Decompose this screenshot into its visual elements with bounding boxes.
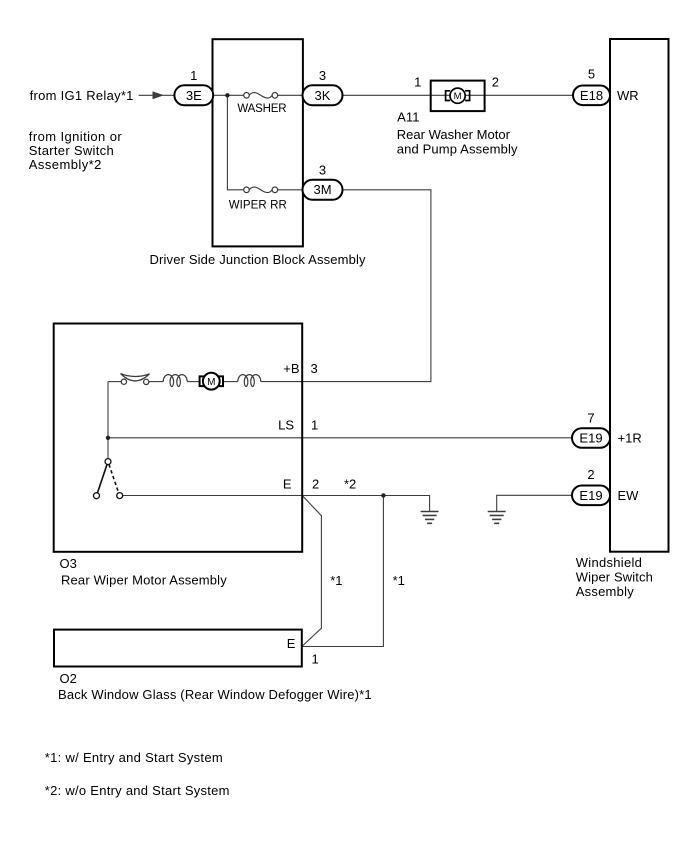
svg-text:1: 1 <box>311 418 318 433</box>
svg-text:+B: +B <box>283 361 299 376</box>
svg-text:Driver Side Junction Block Ass: Driver Side Junction Block Assembly <box>150 252 367 267</box>
svg-text:E: E <box>287 636 296 651</box>
svg-text:*2: *2 <box>344 477 356 492</box>
svg-text:M: M <box>454 91 462 102</box>
svg-text:1: 1 <box>414 75 421 90</box>
svg-text:2: 2 <box>492 75 499 90</box>
svg-text:EW: EW <box>618 488 640 503</box>
svg-text:*1: w/ Entry and Start System: *1: w/ Entry and Start System <box>45 750 223 765</box>
svg-text:Windshield: Windshield <box>576 555 642 570</box>
svg-text:E: E <box>283 477 292 492</box>
svg-text:E19: E19 <box>579 431 602 446</box>
svg-text:7: 7 <box>587 411 594 426</box>
svg-text:3: 3 <box>311 361 318 376</box>
svg-text:Rear Wiper Motor Assembly: Rear Wiper Motor Assembly <box>61 573 227 588</box>
svg-text:3: 3 <box>319 162 326 177</box>
svg-text:1: 1 <box>312 652 319 667</box>
svg-text:WASHER: WASHER <box>237 103 286 115</box>
svg-text:M: M <box>207 377 215 388</box>
svg-text:3: 3 <box>319 68 326 83</box>
svg-text:WIPER RR: WIPER RR <box>229 199 287 211</box>
svg-text:3K: 3K <box>315 88 331 103</box>
svg-text:*2: w/o Entry and Start System: *2: w/o Entry and Start System <box>45 783 230 798</box>
svg-text:Wiper Switch: Wiper Switch <box>576 570 653 585</box>
svg-text:Starter Switch: Starter Switch <box>29 143 114 158</box>
svg-text:Rear Washer Motor: Rear Washer Motor <box>397 127 511 142</box>
svg-text:O2: O2 <box>60 671 77 686</box>
svg-text:LS: LS <box>278 418 294 433</box>
svg-text:E18: E18 <box>580 88 603 103</box>
svg-text:A11: A11 <box>397 109 419 124</box>
svg-text:from Ignition or: from Ignition or <box>29 129 123 144</box>
svg-text:5: 5 <box>588 67 595 82</box>
svg-text:2: 2 <box>587 467 594 482</box>
svg-text:E19: E19 <box>579 488 602 503</box>
svg-text:Assembly*2: Assembly*2 <box>29 157 102 172</box>
svg-text:*1: *1 <box>330 573 342 588</box>
svg-text:2: 2 <box>312 477 319 492</box>
svg-text:from IG1 Relay*1: from IG1 Relay*1 <box>30 88 134 103</box>
svg-text:*1: *1 <box>393 573 405 588</box>
svg-text:1: 1 <box>190 68 197 83</box>
svg-text:O3: O3 <box>60 556 77 571</box>
svg-text:3E: 3E <box>186 88 202 103</box>
svg-text:+1R: +1R <box>618 431 642 446</box>
svg-text:3M: 3M <box>313 182 331 197</box>
svg-text:Back Window Glass (Rear Window: Back Window Glass (Rear Window Defogger … <box>58 687 372 702</box>
svg-text:WR: WR <box>617 88 639 103</box>
svg-text:Assembly: Assembly <box>576 584 635 599</box>
svg-text:and Pump Assembly: and Pump Assembly <box>397 141 518 156</box>
